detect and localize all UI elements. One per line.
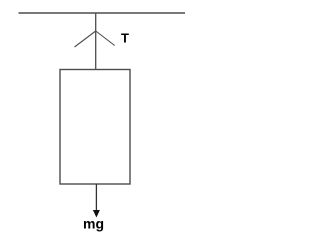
arrow mg head	[93, 210, 100, 218]
arrow T head left wing	[75, 31, 96, 47]
svg-text:T: T	[121, 31, 129, 46]
wire mg arrow shaft	[95, 184, 97, 211]
block mass rectangle	[60, 70, 130, 185]
wire string	[95, 13, 97, 70]
ceiling	[19, 12, 186, 14]
svg-text:mg: mg	[83, 216, 104, 232]
arrow T head right wing	[96, 31, 115, 46]
